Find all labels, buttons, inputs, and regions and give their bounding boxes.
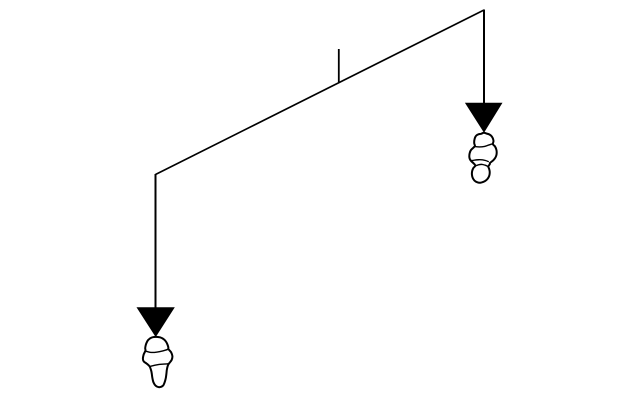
- arrow right (filled triangle pointing down): [466, 103, 502, 132]
- node: right weight blob outline: [469, 133, 496, 183]
- left blob lower internal band line: [150, 364, 169, 367]
- wire: left vertical drop: [155, 174, 157, 309]
- left blob upper internal band line: [146, 349, 169, 352]
- arrow left (filled triangle pointing down): [137, 308, 174, 336]
- wire: right vertical drop: [483, 10, 485, 105]
- right blob bottom-lobe top arc: [475, 164, 488, 166]
- wire: diagonal beam from left corner to top-right apex: [156, 10, 485, 175]
- node: left weight blob outline: [143, 337, 173, 387]
- right blob lower internal band line: [471, 160, 489, 162]
- right blob upper internal band line: [475, 144, 493, 147]
- wire: tick mark on diagonal: [338, 49, 340, 82]
